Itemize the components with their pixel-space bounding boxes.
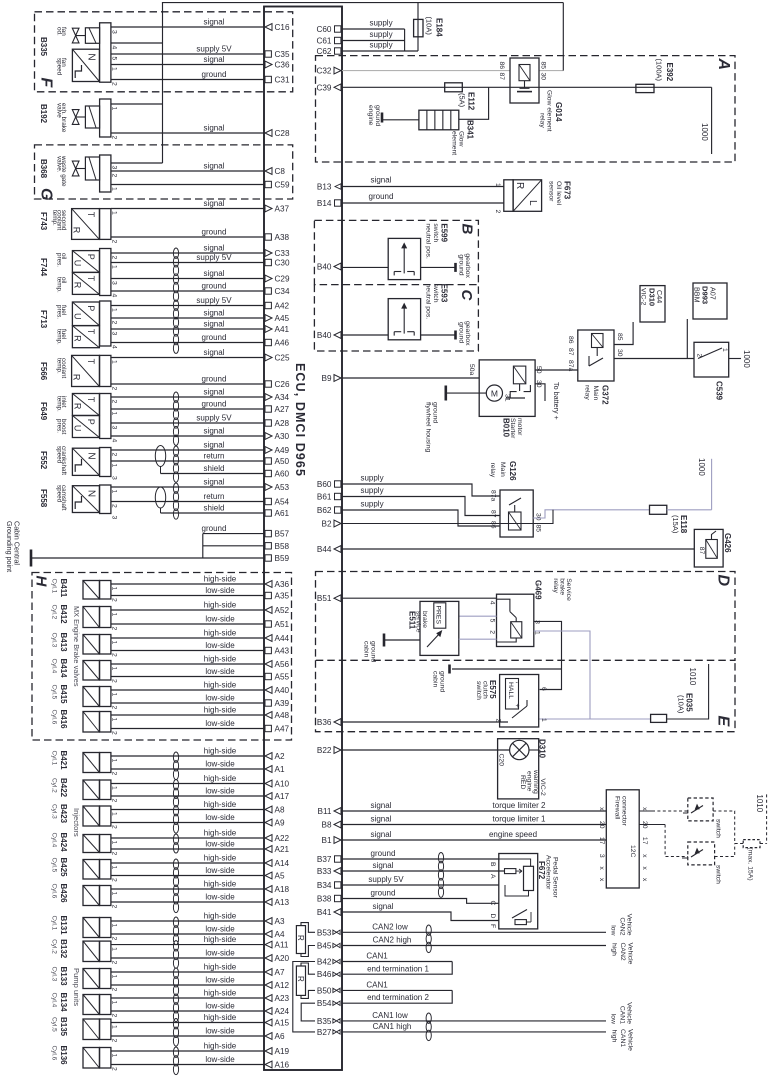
svg-text:87: 87 [567, 348, 574, 356]
wire B41 signal [342, 912, 499, 921]
svg-text:1000: 1000 [697, 458, 706, 476]
connector F558 [100, 485, 111, 514]
svg-text:supply 5V: supply 5V [368, 875, 404, 884]
ECU pin B35 [333, 1019, 340, 1023]
wire B368 pin3 to bus [111, 162, 163, 164]
svg-text:B192: B192 [39, 104, 48, 124]
wire to pin A61 [161, 512, 265, 514]
ECU pin C61 [335, 37, 341, 43]
svg-text:2: 2 [488, 630, 495, 634]
wire to pin C35 [111, 53, 264, 55]
svg-text:E392: E392 [665, 63, 674, 82]
valve B426 Cyl.6 [83, 886, 99, 906]
ECU pin A30 [265, 433, 272, 440]
svg-text:high-side: high-side [204, 828, 237, 837]
wire G372 85 to VIC-2 [614, 322, 633, 345]
svg-text:T: T [86, 359, 96, 365]
svg-text:supply: supply [369, 41, 392, 50]
ECU pin B50 [333, 988, 340, 992]
pedal sensor F672 [499, 854, 538, 929]
switch E593 neutral position [388, 299, 420, 340]
svg-text:E: E [715, 716, 732, 728]
wire end termination 2 [342, 990, 452, 1003]
svg-text:86: 86 [498, 62, 505, 70]
svg-text:2: 2 [111, 988, 118, 992]
terminating resistor R CAN2 [296, 926, 305, 954]
svg-text:cabin: cabin [363, 641, 370, 657]
svg-text:gearbox: gearbox [464, 321, 471, 346]
ECU pin A53 [265, 484, 272, 491]
svg-text:Cyl.3: Cyl.3 [50, 967, 57, 982]
wire to pin A43 [111, 650, 264, 652]
svg-text:B134: B134 [59, 993, 68, 1013]
wire E511 to G469 2 [459, 638, 497, 640]
ECU pin A5 [265, 872, 272, 879]
wire B44 to G426 [342, 548, 694, 550]
svg-text:B34: B34 [317, 881, 332, 890]
svg-text:C32: C32 [316, 67, 331, 76]
svg-text:1: 1 [111, 67, 118, 71]
svg-text:ground: ground [458, 254, 465, 275]
svg-text:CAN1: CAN1 [366, 952, 388, 961]
svg-text:1: 1 [111, 1025, 118, 1029]
svg-text:G014: G014 [554, 102, 563, 122]
twisted pair F558 [173, 483, 178, 493]
svg-text:signal: signal [204, 319, 225, 328]
fuse E392 (100A) [636, 84, 654, 92]
wire to pin A45 [111, 317, 264, 319]
svg-text:high-side: high-side [204, 935, 237, 944]
ECU pin B41 [334, 909, 341, 916]
svg-text:C26: C26 [275, 380, 290, 389]
valve B412 Cyl.2 [83, 607, 99, 628]
svg-text:HALL: HALL [507, 682, 514, 699]
wire C539 to 1000 [729, 358, 741, 360]
svg-text:G469: G469 [534, 580, 543, 600]
svg-text:Cyl.4: Cyl.4 [50, 993, 57, 1008]
ECU pin A17 [265, 793, 272, 800]
wire to pin C59 [111, 184, 264, 186]
svg-text:CAN2: CAN2 [619, 943, 626, 961]
svg-text:VIC-2: VIC-2 [539, 778, 546, 796]
ECU pin C33 [265, 250, 272, 257]
svg-text:A42: A42 [275, 302, 290, 311]
svg-text:B135: B135 [59, 1017, 68, 1037]
svg-text:A7: A7 [275, 968, 285, 977]
svg-text:N: N [85, 452, 96, 459]
svg-text:RED: RED [519, 775, 526, 789]
wire B53 CAN2 low [342, 931, 606, 933]
svg-text:86: 86 [567, 336, 574, 344]
wire B33 signal [342, 870, 505, 872]
svg-text:motor: motor [516, 418, 523, 436]
svg-text:A49: A49 [275, 446, 290, 455]
svg-text:ground: ground [202, 70, 227, 79]
svg-text:B421: B421 [59, 751, 68, 771]
svg-text:x: x [641, 807, 648, 811]
svg-text:B: B [459, 224, 476, 235]
svg-text:temp.: temp. [55, 329, 62, 345]
svg-text:signal: signal [204, 477, 225, 486]
twisted pair injector [173, 859, 178, 869]
valve B413 Cyl.3 [83, 635, 99, 655]
svg-text:A12: A12 [275, 981, 290, 990]
twisted pair F649 [173, 392, 178, 402]
svg-text:high-side: high-side [204, 962, 237, 971]
svg-text:31: 31 [504, 394, 511, 402]
svg-text:5: 5 [111, 57, 118, 61]
wire G372 30 to C539 [614, 358, 694, 360]
svg-text:signal: signal [204, 123, 225, 132]
wire to pin C29 [111, 278, 264, 280]
svg-text:B131: B131 [59, 916, 68, 936]
twisted pair injector [173, 885, 178, 895]
svg-text:high-side: high-side [204, 800, 237, 809]
ECU pin A38 [265, 234, 271, 240]
wire to pin A60 [161, 473, 265, 475]
svg-text:low-side: low-side [205, 719, 235, 728]
svg-text:ground: ground [202, 281, 227, 290]
svg-text:Glow element: Glow element [546, 90, 553, 132]
wire to pin A1 [111, 768, 264, 770]
svg-text:Vehicle: Vehicle [626, 1002, 633, 1024]
svg-text:(10A): (10A) [676, 695, 685, 714]
svg-text:87: 87 [490, 510, 497, 518]
svg-text:B8: B8 [321, 821, 331, 830]
valve B414 Cyl.4 [83, 661, 99, 681]
svg-text:50a: 50a [468, 364, 475, 376]
ECU pin A60 [265, 470, 271, 476]
twisted pair CAN2 [426, 925, 431, 935]
svg-text:high-side: high-side [204, 774, 237, 783]
svg-text:1: 1 [111, 211, 118, 215]
svg-text:low-side: low-side [205, 813, 235, 822]
glow element B341 [419, 110, 459, 130]
wire B36 [342, 721, 508, 723]
svg-text:signal: signal [373, 902, 394, 911]
ECU pin B44 [334, 546, 341, 553]
firewall connector 12C [606, 790, 639, 888]
svg-text:85: 85 [535, 525, 542, 533]
svg-text:3: 3 [598, 854, 605, 858]
svg-text:C44: C44 [655, 290, 664, 303]
svg-text:1: 1 [111, 866, 118, 870]
svg-text:N: N [85, 53, 96, 60]
twisted pair injector [173, 834, 178, 844]
svg-text:A61: A61 [275, 509, 290, 518]
ECU pin A61 [265, 510, 271, 516]
svg-text:U: U [72, 313, 82, 320]
svg-text:6: 6 [540, 687, 547, 691]
svg-text:supply 5V: supply 5V [196, 413, 232, 422]
valve B415 Cyl.5 [83, 687, 99, 707]
ECU pin A35 [265, 592, 271, 598]
svg-text:B46: B46 [317, 970, 332, 979]
svg-text:A37: A37 [275, 205, 290, 214]
svg-text:supply 5V: supply 5V [196, 253, 232, 262]
svg-text:2: 2 [111, 504, 118, 508]
wire B335 pin4 to bus [111, 42, 163, 44]
wire to pin A49 [111, 449, 264, 451]
svg-text:Cyl.6: Cyl.6 [50, 1046, 57, 1061]
svg-text:switch: switch [432, 223, 439, 242]
svg-text:Cyl.2: Cyl.2 [50, 939, 57, 954]
sensor F649 boost pres [72, 416, 99, 438]
svg-text:1010: 1010 [755, 794, 764, 812]
wire B22 to warning lamp [342, 749, 509, 751]
wire to pin A4 [111, 933, 264, 935]
svg-text:engine: engine [526, 771, 533, 792]
valve B424 Cyl.4 [83, 835, 99, 853]
ECU pin C8 [265, 168, 272, 175]
starter motor B010 [479, 360, 535, 417]
wire relay 85 to top rail [539, 70, 563, 72]
svg-text:2: 2 [111, 852, 118, 856]
svg-text:ground: ground [458, 322, 465, 343]
ECU pin B62 [335, 507, 341, 513]
svg-text:B132: B132 [59, 939, 68, 959]
connector F566 [100, 355, 111, 386]
svg-text:R: R [72, 227, 82, 234]
twisted pair pump unit [173, 941, 178, 951]
svg-text:1: 1 [111, 975, 118, 979]
wire B61 supply [342, 497, 500, 516]
svg-text:1: 1 [533, 631, 540, 635]
cabin ground E box [448, 665, 451, 674]
ECU pin A34 [265, 394, 272, 401]
svg-text:CAN2 low: CAN2 low [372, 923, 408, 932]
ECU pin A15 [265, 1019, 272, 1026]
svg-text:Cyl.3: Cyl.3 [50, 804, 57, 819]
dashed box E [316, 660, 736, 731]
ECU pin A48 [265, 712, 272, 719]
svg-text:B412: B412 [59, 605, 68, 625]
gearbox ground [454, 331, 457, 340]
ECU pin B37 [335, 856, 341, 862]
svg-text:ground: ground [439, 671, 446, 692]
svg-text:G126: G126 [508, 461, 517, 481]
svg-text:Firewall: Firewall [614, 796, 621, 820]
svg-text:signal: signal [373, 861, 394, 870]
svg-text:4: 4 [111, 345, 118, 349]
svg-text:B50: B50 [317, 986, 332, 995]
svg-text:B416: B416 [59, 710, 68, 730]
ECU pin C28 [265, 130, 272, 137]
svg-text:C31: C31 [275, 76, 290, 85]
ECU pin C30 [265, 259, 271, 265]
svg-text:C34: C34 [275, 287, 290, 296]
svg-text:2: 2 [111, 653, 118, 657]
svg-text:T: T [86, 329, 96, 335]
svg-text:A: A [489, 874, 496, 879]
svg-text:87a: 87a [490, 490, 497, 502]
svg-text:86: 86 [490, 521, 497, 529]
svg-text:B413: B413 [59, 633, 68, 653]
ECU pin C59 [265, 181, 271, 187]
wire to pin A12 [111, 984, 264, 986]
svg-text:supply: supply [360, 474, 383, 483]
wire E511 to G469 5 [459, 615, 497, 617]
wire end termination 1 [342, 962, 452, 975]
connector F552 [100, 448, 111, 477]
wire to pin A44 [111, 637, 264, 639]
svg-text:2: 2 [111, 937, 118, 941]
supply junction wire [404, 29, 406, 51]
fuse E035 (10A) [651, 714, 667, 722]
ECU pin A45 [265, 315, 272, 322]
svg-text:R: R [72, 403, 82, 410]
svg-text:2: 2 [111, 706, 118, 710]
svg-text:low-side: low-side [205, 641, 235, 650]
svg-text:A20: A20 [275, 954, 290, 963]
svg-text:B36: B36 [317, 718, 332, 727]
connector B368 [100, 155, 111, 192]
svg-text:B414: B414 [59, 659, 68, 679]
VIC-2 D310 C44 box [640, 286, 665, 322]
svg-text:element: element [451, 131, 458, 155]
svg-text:speed: speed [55, 58, 62, 76]
wire G469 1 to E575 1 [534, 631, 590, 719]
wire B42 CAN1 [342, 961, 452, 963]
svg-text:R: R [72, 282, 82, 289]
ECU pin A1 [265, 766, 272, 773]
svg-text:supply 5V: supply 5V [196, 296, 232, 305]
svg-text:engine: engine [367, 105, 374, 126]
svg-text:B51: B51 [317, 594, 332, 603]
svg-text:ground: ground [202, 333, 227, 342]
svg-text:2: 2 [111, 321, 118, 325]
svg-text:low-side: low-side [205, 892, 235, 901]
svg-text:low-side: low-side [205, 759, 235, 768]
svg-text:Pedal Sensor: Pedal Sensor [552, 857, 559, 899]
svg-text:5: 5 [488, 619, 495, 623]
svg-text:signal: signal [204, 17, 225, 26]
svg-text:Cyl.3: Cyl.3 [50, 633, 57, 648]
svg-text:Cyl.6: Cyl.6 [50, 710, 57, 725]
ECU pin A13 [265, 899, 272, 906]
ECU pin B34 [335, 882, 341, 888]
wire C61 supply [342, 40, 405, 42]
svg-text:PRES: PRES [435, 606, 442, 625]
wire to pin C28 [111, 132, 264, 134]
fuse E184 (10A) [414, 19, 423, 36]
svg-text:low: low [610, 1014, 617, 1024]
wire glow element branch [459, 87, 489, 119]
sensor F743 second coolant temp [72, 209, 100, 240]
ECU pin B46 [333, 972, 340, 976]
ECU pin A43 [265, 647, 271, 653]
svg-text:supply: supply [360, 500, 383, 509]
svg-text:CAN2: CAN2 [618, 917, 625, 935]
svg-text:F713: F713 [39, 310, 48, 329]
svg-text:A19: A19 [275, 1047, 290, 1056]
wire G126 30 to fuse E118 [533, 510, 649, 518]
svg-text:F: F [38, 78, 55, 89]
svg-text:supply 5V: supply 5V [196, 44, 232, 53]
wire B38 ground [342, 899, 499, 904]
svg-text:A43: A43 [275, 647, 290, 656]
svg-text:3: 3 [111, 30, 118, 34]
svg-text:3: 3 [111, 516, 118, 520]
switch C539 [694, 342, 729, 377]
svg-text:x: x [598, 878, 605, 882]
valve B132 Cyl.2 [83, 941, 99, 961]
left supply bus wire [162, 3, 164, 163]
ECU pin A51 [265, 621, 271, 627]
ECU pin B45 [333, 943, 340, 947]
svg-text:2: 2 [111, 240, 118, 244]
svg-text:supply: supply [369, 30, 392, 39]
ECU pin C32 [334, 67, 341, 74]
ECU pin A20 [265, 955, 272, 962]
ECU pin B53 [333, 930, 340, 934]
svg-text:BBM: BBM [693, 287, 702, 303]
relay G426 [694, 529, 723, 567]
ECU pin A8 [265, 806, 272, 813]
svg-text:C59: C59 [275, 181, 290, 190]
svg-text:1000: 1000 [700, 123, 709, 141]
svg-text:low-side: low-side [205, 948, 235, 957]
svg-text:MX Engine Brake valves: MX Engine Brake valves [72, 606, 81, 687]
svg-text:F649: F649 [39, 402, 48, 421]
wire to pin A17 [111, 795, 264, 797]
ECU pin C34 [265, 288, 271, 294]
wire to pin C36 [111, 64, 264, 66]
svg-text:A15: A15 [275, 1019, 290, 1028]
svg-text:A17: A17 [275, 792, 290, 801]
wire to pin A53 [111, 486, 264, 488]
wire to pin A20 [111, 957, 264, 959]
svg-text:high-side: high-side [204, 1013, 237, 1022]
svg-text:signal: signal [204, 161, 225, 170]
switch E599 neutral position [388, 238, 420, 279]
svg-text:A36: A36 [275, 580, 290, 589]
connector B192 [100, 99, 111, 137]
wire to pin A47 [111, 728, 264, 730]
wire BBM to wire 30 [686, 319, 688, 359]
svg-text:temp.: temp. [51, 210, 58, 226]
svg-text:D: D [715, 575, 732, 587]
svg-text:B59: B59 [275, 554, 290, 563]
wire to pin C33 [111, 252, 264, 254]
twisted pair injector [173, 780, 178, 790]
svg-text:30: 30 [616, 349, 623, 357]
svg-text:ground: ground [202, 227, 227, 236]
wire to pin A10 [111, 783, 264, 785]
twisted pair pump unit [173, 917, 178, 927]
cabin ground E511 [383, 634, 386, 647]
svg-text:x: x [641, 878, 648, 882]
svg-text:2: 2 [696, 354, 703, 358]
svg-text:B424: B424 [59, 833, 68, 853]
svg-text:sensor: sensor [548, 181, 555, 202]
svg-text:3: 3 [111, 332, 118, 336]
ECU pin A3 [265, 918, 272, 925]
svg-text:Main: Main [499, 462, 506, 477]
wire to pin A11 [111, 944, 264, 946]
svg-text:brake: brake [558, 578, 565, 595]
svg-text:1: 1 [111, 587, 118, 591]
svg-text:low-side: low-side [205, 924, 235, 933]
wire to pin A41 [111, 328, 264, 330]
svg-text:3: 3 [111, 281, 118, 285]
ECU pin A14 [265, 860, 272, 867]
svg-text:Cyl.4: Cyl.4 [50, 833, 57, 848]
ECU pin A47 [265, 725, 271, 731]
svg-text:pres.: pres. [55, 305, 62, 319]
svg-text:low-side: low-side [205, 667, 235, 676]
connector B335 [100, 23, 111, 82]
